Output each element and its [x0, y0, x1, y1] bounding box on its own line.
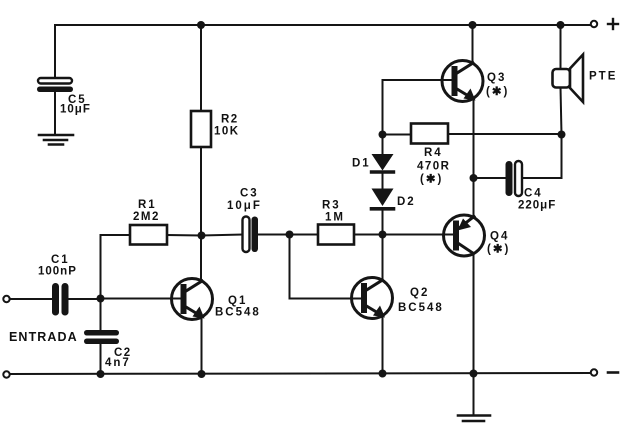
svg-text:PTE: PTE [589, 71, 617, 83]
capacitor C1 100nP [38, 254, 77, 316]
capacitor C3 10uF [202, 188, 290, 253]
wire node to Q4 base [383, 234, 457, 236]
wire node down to C2 [100, 299, 102, 331]
resistor R2 10K [191, 111, 240, 147]
ground (C5) [39, 135, 73, 145]
wire R1 left down to base node [101, 235, 131, 299]
wire Q3 collector [472, 25, 474, 64]
wire Q3 emitter to Q4 [473, 99, 475, 216]
capacitor C2 4n7 [84, 330, 132, 374]
ground (output) [458, 416, 490, 422]
wire rail to R2 [200, 25, 202, 111]
svg-text:Q1: Q1 [228, 295, 247, 307]
transistor Q2 BC548 [352, 278, 444, 319]
bottom-left terminal [3, 371, 9, 377]
node R4 / speaker / C4 [558, 131, 566, 139]
svg-text:C3: C3 [240, 188, 259, 200]
node C3 / R3 / Q2 base [286, 231, 294, 239]
wire C5 drop from rail [54, 25, 56, 78]
transistor Q1 BC548 [172, 279, 261, 320]
diode D2 [372, 189, 416, 235]
svg-text:BC548: BC548 [398, 302, 444, 314]
svg-text:Q2: Q2 [410, 287, 429, 299]
svg-text:C4: C4 [524, 188, 543, 200]
transistor Q4 (PNP) [444, 215, 511, 256]
svg-text:ENTRADA: ENTRADA [9, 330, 78, 344]
diode D1 [352, 135, 394, 189]
wire node to Q1 base [101, 298, 185, 300]
node Q1 collector / R1 / C3 [198, 232, 206, 240]
positive terminal [591, 19, 618, 29]
svg-text:BC548: BC548 [215, 307, 261, 319]
wire bottom rail [10, 373, 591, 374]
svg-text:C1: C1 [51, 254, 70, 266]
node top rail / Q3 collector [469, 21, 477, 29]
svg-text:10μF: 10μF [60, 104, 91, 116]
svg-text:D1: D1 [352, 158, 371, 170]
transistor Q3 [442, 61, 509, 102]
wire Q1 emitter to bottom rail [201, 317, 203, 374]
speaker PTE [553, 55, 618, 103]
svg-text:R1: R1 [138, 199, 157, 211]
svg-text:100nP: 100nP [38, 266, 77, 278]
node bottom rail / Q4 / ground [470, 370, 478, 378]
svg-text:1M: 1M [325, 212, 345, 224]
svg-text:D2: D2 [397, 196, 416, 208]
svg-text:R4: R4 [424, 147, 443, 159]
node bottom rail / C2 [97, 370, 105, 378]
wire Q2 collector up [382, 235, 384, 280]
node D1 / R4 / Q3 base [379, 131, 387, 139]
svg-text:(✱): (✱) [487, 244, 510, 256]
node R3 / D2 / Q2 / Q4 base [379, 231, 387, 239]
svg-text:(✱): (✱) [420, 174, 443, 186]
input terminal [3, 296, 9, 302]
node bottom rail / Q2 emitter [379, 370, 387, 378]
wire R2 to Q1 collector [200, 147, 202, 281]
svg-text:10μF: 10μF [227, 200, 262, 212]
resistor R3 1M [290, 200, 383, 245]
node bottom rail / Q1 emitter [198, 370, 206, 378]
resistor R1 2M2 [130, 199, 167, 245]
wire R1 right to node [167, 234, 202, 237]
svg-text:220μF: 220μF [518, 200, 556, 212]
negative terminal [591, 369, 618, 375]
wire C1 to base node [69, 298, 101, 300]
svg-text:Q4: Q4 [490, 231, 509, 243]
svg-text:4n7: 4n7 [105, 357, 131, 369]
resistor R4 470R [383, 124, 562, 186]
svg-text:2M2: 2M2 [133, 211, 160, 223]
node C4 tap [470, 174, 478, 182]
node top rail / R2 [197, 21, 205, 29]
wire Q2 emitter to bottom rail [382, 317, 384, 375]
wire speaker to R4 node [561, 88, 562, 135]
capacitor C4 220uF [474, 135, 562, 212]
capacitor C5 [37, 78, 91, 134]
svg-text:10K: 10K [214, 126, 240, 138]
node Q1 base / C2 [97, 295, 105, 303]
svg-text:R3: R3 [322, 200, 341, 212]
svg-text:R2: R2 [221, 114, 239, 126]
svg-text:(✱): (✱) [486, 86, 509, 98]
wire top rail [55, 24, 591, 26]
wire to output ground [473, 374, 475, 416]
wire node up to Q3 base [383, 80, 457, 135]
wire rail to speaker [560, 25, 562, 69]
node top rail / speaker [557, 21, 565, 29]
svg-text:470R: 470R [417, 161, 451, 173]
wire input to C1 [10, 298, 52, 300]
wire Q4 collector to bottom rail [473, 254, 475, 374]
wire node down to Q2 base [290, 235, 366, 299]
svg-text:Q3: Q3 [487, 72, 506, 84]
